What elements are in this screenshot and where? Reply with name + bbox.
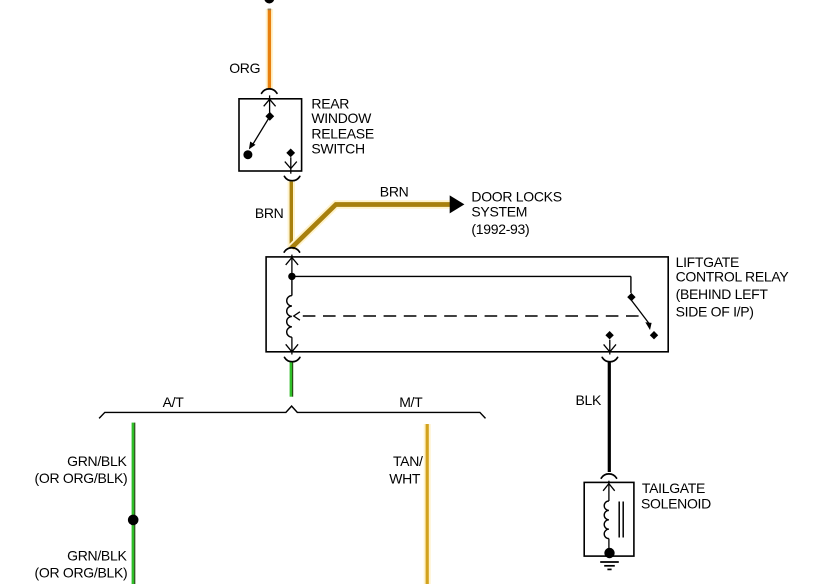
svg-text:CONTROL RELAY: CONTROL RELAY [676, 269, 790, 285]
svg-text:REAR: REAR [311, 95, 349, 111]
svg-text:(OR ORG/BLK): (OR ORG/BLK) [35, 565, 128, 581]
rear window release switch box S1 [239, 99, 302, 171]
label GRN/BLK (OR ORG/BLK) upper [35, 453, 128, 486]
switch pin arrow (top, input) [264, 95, 276, 112]
relay pin arrow (top input) [286, 255, 298, 277]
label REAR WINDOW RELEASE SWITCH [311, 95, 374, 156]
node: splice dot on GRN/BLK wire [128, 515, 139, 526]
solenoid pin arrow (top input) [603, 481, 615, 501]
svg-text:BLK: BLK [575, 392, 602, 408]
svg-text:TAILGATE: TAILGATE [642, 480, 705, 496]
svg-text:(1992-93): (1992-93) [471, 221, 529, 237]
label DOOR LOCKS SYSTEM (1992-93) [471, 189, 561, 237]
node: solenoid ground junction dot [604, 548, 614, 558]
svg-text:GRN/BLK: GRN/BLK [67, 453, 127, 469]
connector below relay (left, coil output) [285, 357, 300, 361]
svg-text:ORG: ORG [229, 60, 260, 76]
svg-text:A/T: A/T [163, 394, 185, 410]
tailgate solenoid box [584, 482, 634, 556]
label TAN/ WHT [389, 453, 423, 486]
relay coil [287, 296, 292, 338]
connector above tailgate solenoid [601, 474, 616, 478]
switch output terminal diamond [286, 149, 295, 158]
switch pin arrow (bottom, output) [285, 157, 297, 173]
svg-text:GRN/BLK: GRN/BLK [67, 548, 127, 564]
switch movable arm with arrowhead [249, 117, 269, 149]
liftgate control relay box K1 [266, 257, 668, 352]
label GRN/BLK (OR ORG/BLK) lower [35, 548, 128, 581]
relay pin arrow (coil bottom output) [286, 337, 298, 354]
wire BRN vertical [288, 182, 295, 248]
label TAILGATE SOLENOID [641, 480, 711, 511]
svg-text:SWITCH: SWITCH [311, 141, 364, 157]
relay switch arm (vertical drop, pivot diamond, arm, arrowhead, contact diamond) [627, 276, 658, 339]
svg-text:LIFTGATE: LIFTGATE [676, 254, 739, 270]
wire GRN with black stripe (relay to branch) [290, 362, 294, 396]
svg-text:M/T: M/T [399, 394, 423, 410]
node: top splice dot [264, 0, 274, 4]
relay internal wire (junction to switch arm) [292, 275, 631, 277]
solenoid bottom lead [608, 539, 610, 552]
relay output terminal diamond and pin arrow [604, 331, 616, 355]
relay internal wire (junction down to coil) [291, 276, 293, 295]
solenoid coil [604, 501, 609, 539]
relay actuation dashed link with arrowhead [294, 312, 641, 320]
wire GRN/BLK left branch [132, 423, 136, 584]
svg-text:BRN: BRN [255, 205, 284, 221]
connector below relay (right, switch output) [602, 357, 617, 361]
label LIFTGATE CONTROL RELAY (BEHIND LEFT SIDE OF I/P) [676, 254, 790, 320]
wire TAN/WHT [424, 424, 431, 584]
svg-text:TAN/: TAN/ [393, 453, 423, 469]
svg-text:WHT: WHT [389, 470, 421, 486]
svg-text:SOLENOID: SOLENOID [641, 496, 711, 512]
svg-text:WINDOW: WINDOW [311, 110, 372, 126]
node: relay internal junction [288, 273, 295, 280]
branch brace (A/T and M/T split) [99, 406, 485, 418]
svg-text:RELEASE: RELEASE [311, 125, 374, 141]
wire BRN branch to door locks [292, 205, 450, 248]
connector above rear window release switch [262, 89, 278, 93]
wire BLK [608, 362, 611, 472]
svg-text:(OR ORG/BLK): (OR ORG/BLK) [35, 470, 128, 486]
connector below switch [284, 176, 299, 180]
svg-text:DOOR LOCKS: DOOR LOCKS [471, 189, 561, 205]
switch contact dot [243, 150, 252, 159]
connector above liftgate control relay [284, 248, 299, 252]
svg-text:BRN: BRN [380, 184, 409, 200]
arrow to door locks system [450, 195, 465, 213]
wire ORG vertical [266, 9, 273, 89]
svg-text:(BEHIND LEFT: (BEHIND LEFT [676, 286, 769, 302]
ground symbol [600, 562, 619, 569]
switch pivot terminal diamond [265, 112, 274, 121]
solenoid core lines [619, 502, 623, 538]
svg-text:SYSTEM: SYSTEM [471, 204, 527, 220]
svg-text:SIDE OF I/P): SIDE OF I/P) [676, 303, 754, 319]
